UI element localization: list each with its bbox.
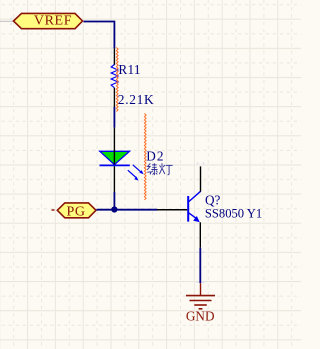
svg-text:R11: R11	[118, 62, 140, 77]
transistor Q1	[157, 166, 262, 247]
emitter diagonal	[189, 213, 197, 219]
compile-error squiggle near D2	[144, 114, 146, 200]
wire Q emitter to GND	[199, 248, 201, 283]
bar 1	[186, 295, 215, 297]
anode pin	[113, 128, 115, 151]
LED D2	[100, 128, 173, 192]
power port GND	[186, 283, 215, 309]
hotspot marker on emitter wire	[196, 251, 204, 283]
svg-text:Q?: Q?	[205, 192, 221, 207]
comment 绿灯 (drawn strokes)	[147, 163, 172, 175]
wire VREF to R11	[84, 22, 115, 49]
compile-error squiggle on R11 pin	[116, 48, 118, 112]
svg-text:D2: D2	[146, 148, 165, 163]
cathode pin	[113, 166, 115, 192]
collector diagonal	[189, 191, 201, 201]
emitter pin	[199, 222, 201, 248]
cathode bar	[100, 164, 130, 166]
emission arrow 2	[128, 170, 139, 180]
stub	[200, 283, 202, 295]
bar 2	[190, 300, 212, 302]
hotspot marker at collector pin top	[197, 162, 204, 164]
base pin	[157, 209, 187, 211]
svg-text:SS8050 Y1: SS8050 Y1	[205, 207, 262, 221]
wire PG to junction to Q base	[97, 209, 158, 211]
emitter arrowhead	[193, 216, 200, 222]
wire D2 to junction	[113, 192, 115, 210]
resistor R11	[111, 48, 154, 107]
junction	[111, 206, 117, 212]
wire R11 to D2	[113, 107, 115, 128]
emission arrow 1	[133, 165, 144, 174]
svg-text:GND: GND	[186, 308, 215, 323]
svg-text:2.21K: 2.21K	[118, 92, 155, 107]
svg-text:PG: PG	[66, 204, 85, 219]
base bar	[187, 196, 189, 222]
pin 2 (bottom)	[113, 88, 115, 107]
svg-text:VREF: VREF	[34, 14, 72, 29]
hotspot marker at VREF tip	[10, 18, 12, 25]
pin through body	[113, 151, 115, 166]
port PG	[57, 203, 96, 219]
zigzag body	[111, 65, 118, 88]
triangle body	[100, 151, 130, 164]
collector pin	[200, 166, 202, 191]
bar 3	[194, 304, 207, 306]
hotspot marker at R11 pin top	[111, 47, 113, 53]
bar 4	[199, 308, 203, 310]
grey stub left of port VREF	[0, 20, 13, 22]
pin 1 (top)	[113, 48, 115, 65]
port VREF	[14, 13, 83, 28]
maroon tick left of port PG	[52, 209, 55, 211]
